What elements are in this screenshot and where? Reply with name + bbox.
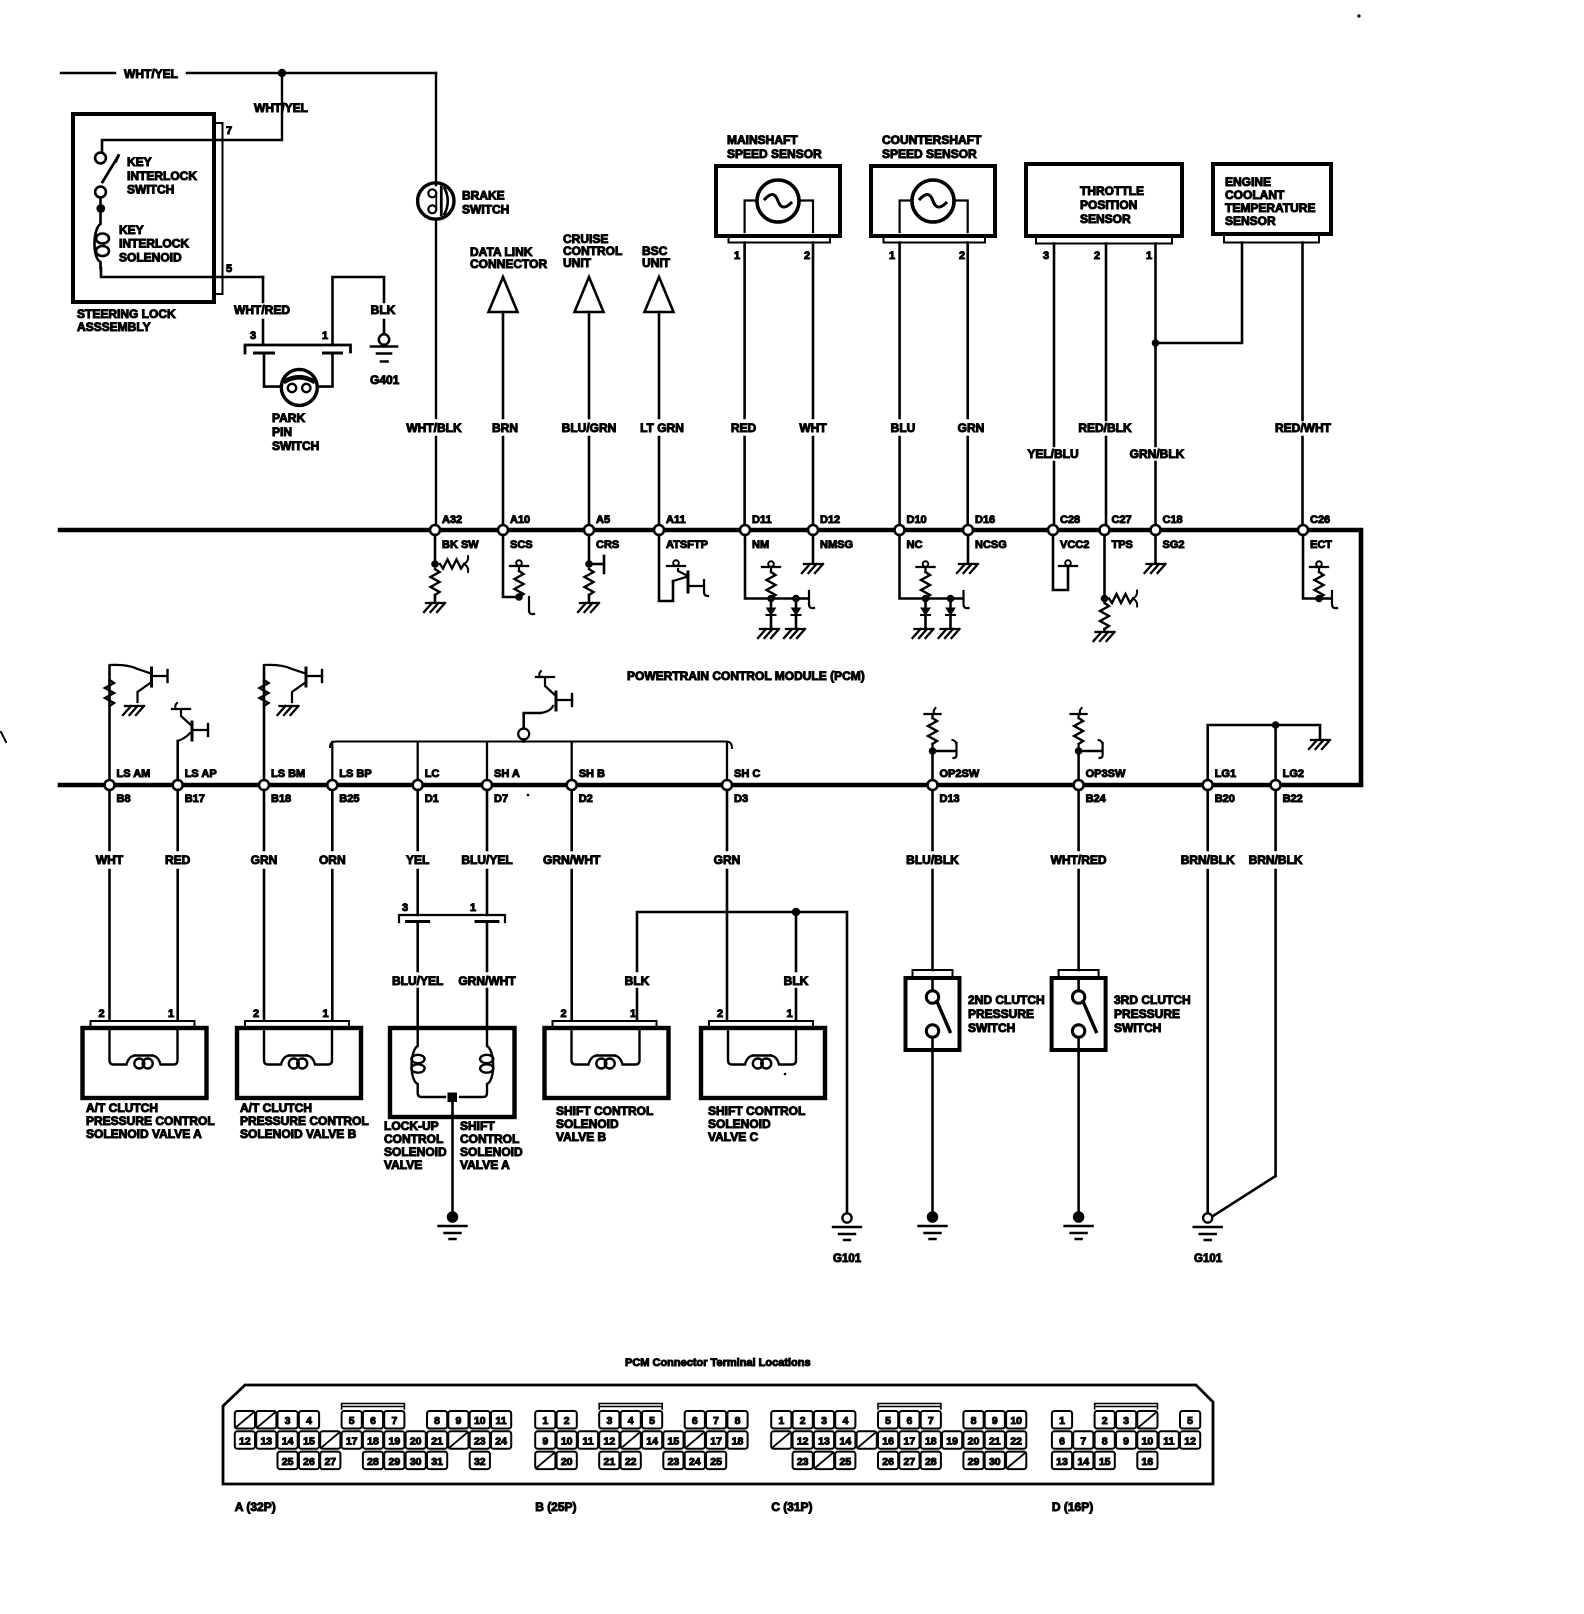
PCM connector housing [223, 1385, 1213, 1484]
svg-text:PRESSURE: PRESSURE [1114, 1007, 1180, 1021]
wire BLU/YEL to lock-up valve [416, 922, 419, 1029]
wire WHT/RED park pin switch [262, 277, 265, 343]
svg-text:SENSOR: SENSOR [1225, 214, 1276, 228]
pin B8 LS AM [105, 780, 115, 790]
PCM internal CRS circuit [588, 535, 591, 562]
svg-text:ECT: ECT [1310, 539, 1332, 551]
svg-text:VALVE A: VALVE A [460, 1158, 510, 1172]
wire key interlock internal top [102, 140, 222, 151]
svg-text:RED/WHT: RED/WHT [1275, 421, 1332, 435]
svg-text:WHT: WHT [799, 421, 827, 435]
svg-text:WHT/RED: WHT/RED [234, 303, 290, 317]
svg-text:YEL: YEL [406, 853, 429, 867]
svg-text:WHT: WHT [96, 853, 124, 867]
svg-text:SG2: SG2 [1163, 539, 1185, 551]
svg-text:5: 5 [349, 1415, 355, 1427]
svg-text:B20: B20 [1215, 793, 1235, 805]
svg-text:2: 2 [1102, 1415, 1108, 1427]
svg-text:1: 1 [734, 250, 740, 262]
svg-text:CONNECTOR: CONNECTOR [470, 257, 547, 271]
wire BRN/BLK from PCM [1274, 790, 1277, 1176]
svg-text:25: 25 [840, 1456, 852, 1468]
svg-text:12: 12 [604, 1436, 616, 1448]
svg-text:1: 1 [322, 330, 328, 342]
wire BRN [502, 312, 505, 525]
svg-text:14: 14 [1077, 1456, 1089, 1468]
svg-text:7: 7 [1080, 1436, 1086, 1448]
svg-text:8: 8 [735, 1415, 741, 1427]
pin D11 NM [740, 525, 750, 535]
svg-text:4: 4 [628, 1415, 634, 1427]
svg-text:1: 1 [778, 1415, 784, 1427]
svg-text:23: 23 [474, 1436, 486, 1448]
svg-text:3: 3 [1043, 250, 1049, 262]
wire RED from PCM [176, 790, 179, 1020]
svg-text:2: 2 [1094, 250, 1100, 262]
svg-text:10: 10 [474, 1415, 486, 1427]
svg-text:WHT/BLK: WHT/BLK [406, 421, 462, 435]
svg-text:8: 8 [1102, 1436, 1108, 1448]
svg-text:WHT/RED: WHT/RED [1051, 853, 1107, 867]
pin C28 VCC2 [1048, 525, 1058, 535]
svg-text:2ND CLUTCH: 2ND CLUTCH [968, 993, 1045, 1007]
PCM internal SCS circuit [503, 535, 516, 597]
svg-text:29: 29 [389, 1456, 401, 1468]
svg-text:11: 11 [582, 1436, 593, 1448]
svg-text:20: 20 [410, 1436, 422, 1448]
ground G401 [379, 334, 389, 344]
svg-text:16: 16 [882, 1436, 894, 1448]
svg-text:C28: C28 [1060, 514, 1080, 526]
svg-text:16: 16 [1142, 1456, 1154, 1468]
svg-text:SOLENOID VALVE B: SOLENOID VALVE B [240, 1127, 357, 1141]
svg-text:SPEED SENSOR: SPEED SENSOR [727, 147, 822, 161]
svg-text:5: 5 [885, 1415, 891, 1427]
svg-text:3: 3 [1123, 1415, 1129, 1427]
svg-text:GRN/WHT: GRN/WHT [543, 853, 601, 867]
wire GRN from PCM [263, 790, 266, 1020]
pin A32 BK SW [430, 525, 440, 535]
svg-text:2: 2 [253, 1008, 259, 1020]
ground (lock-up valve) [448, 1212, 457, 1221]
svg-text:POSITION: POSITION [1080, 198, 1137, 212]
connector A (32P) grid [235, 1411, 255, 1429]
node junction WHT/YEL [278, 69, 286, 77]
svg-text:ORN: ORN [319, 853, 346, 867]
throttle position sensor [1026, 164, 1182, 236]
lock-up control solenoid valve / shift control solenoid valve A [390, 1028, 515, 1117]
svg-text:WHT/YEL: WHT/YEL [254, 101, 308, 115]
connector B (25P) grid [535, 1411, 555, 1429]
wire WHT/BLK brake switch to A32 [435, 220, 437, 526]
wire BLU [898, 243, 901, 526]
svg-text:18: 18 [925, 1436, 937, 1448]
node SG2 junction [1152, 339, 1160, 347]
svg-text:NCSG: NCSG [975, 539, 1007, 551]
svg-text:LC: LC [425, 768, 440, 780]
svg-text:NC: NC [907, 539, 923, 551]
svg-text:30: 30 [989, 1456, 1001, 1468]
svg-text:1: 1 [889, 250, 895, 262]
svg-text:OP3SW: OP3SW [1086, 768, 1126, 780]
PCM internal SG2 ground [1154, 535, 1157, 562]
PCM internal VCC2 circuit [1053, 535, 1068, 590]
wire GRN/WHT from PCM [570, 790, 573, 1020]
3rd clutch pressure switch [1052, 978, 1106, 1050]
wire pin 5 out [101, 268, 263, 277]
svg-text:21: 21 [431, 1436, 443, 1448]
pin A10 SCS [498, 525, 508, 535]
connector C (31P) grid [771, 1411, 791, 1429]
svg-text:1: 1 [1059, 1415, 1065, 1427]
svg-text:2: 2 [959, 250, 965, 262]
svg-text:PIN: PIN [272, 425, 292, 439]
svg-text:18: 18 [367, 1436, 379, 1448]
svg-text:7: 7 [226, 125, 232, 137]
svg-text:GRN/BLK: GRN/BLK [1130, 447, 1185, 461]
svg-text:LOCK-UP: LOCK-UP [384, 1119, 439, 1133]
brake switch [435, 73, 437, 185]
svg-text:KEY: KEY [127, 155, 152, 169]
svg-text:PRESSURE CONTROL: PRESSURE CONTROL [86, 1114, 215, 1128]
svg-text:7: 7 [391, 1415, 397, 1427]
PCM internal shift solenoid common bracket [330, 742, 732, 749]
svg-text:11: 11 [496, 1415, 507, 1427]
svg-text:A10: A10 [510, 514, 530, 526]
svg-text:SCS: SCS [510, 539, 533, 551]
shift control solenoid valve B [545, 1028, 669, 1098]
svg-text:SOLENOID: SOLENOID [119, 251, 182, 265]
svg-text:SOLENOID: SOLENOID [384, 1145, 447, 1159]
svg-text:OP2SW: OP2SW [940, 768, 980, 780]
wire RED/BLK TPS pin2 [1105, 244, 1108, 526]
svg-text:B24: B24 [1086, 793, 1107, 805]
svg-text:BLK: BLK [625, 974, 650, 988]
svg-text:10: 10 [561, 1436, 573, 1448]
svg-text:SHIFT CONTROL: SHIFT CONTROL [708, 1104, 805, 1118]
pin D7 SH A [482, 780, 492, 790]
engine coolant temperature sensor [1213, 164, 1331, 234]
pin C18 SG2 [1151, 525, 1161, 535]
svg-text:11: 11 [1163, 1436, 1174, 1448]
pin B20 LG1 [1203, 780, 1213, 790]
pin D10 NC [895, 525, 905, 535]
svg-text:2: 2 [717, 1008, 723, 1020]
PCM top bus [60, 530, 1361, 784]
svg-text:1: 1 [542, 1415, 548, 1427]
svg-text:9: 9 [992, 1415, 998, 1427]
svg-text:2: 2 [800, 1415, 806, 1427]
svg-text:D10: D10 [907, 514, 927, 526]
pin D1 LC [413, 780, 423, 790]
svg-text:LS BM: LS BM [271, 768, 305, 780]
connector park pin switch [245, 345, 351, 353]
svg-text:26: 26 [303, 1456, 315, 1468]
svg-text:3: 3 [285, 1415, 291, 1427]
svg-text:12: 12 [797, 1436, 809, 1448]
svg-text:C26: C26 [1310, 514, 1330, 526]
svg-text:25: 25 [282, 1456, 294, 1468]
svg-text:13: 13 [1056, 1456, 1068, 1468]
pin C26 ECT [1298, 525, 1308, 535]
svg-text:23: 23 [797, 1456, 809, 1468]
svg-text:21: 21 [604, 1456, 616, 1468]
svg-text:3: 3 [250, 330, 256, 342]
svg-text:24: 24 [689, 1456, 701, 1468]
pin A11 ATSFTP [654, 525, 664, 535]
svg-text:25: 25 [710, 1456, 722, 1468]
wire lock-up valve common to ground [451, 1097, 454, 1212]
svg-text:BLU: BLU [891, 421, 916, 435]
wire BLU/GRN [588, 312, 591, 525]
svg-text:RED: RED [731, 421, 757, 435]
pin D2 SH B [567, 780, 577, 790]
svg-text:3: 3 [821, 1415, 827, 1427]
2nd clutch pressure switch [906, 978, 960, 1050]
PCM internal ECT circuit [1303, 535, 1319, 599]
svg-text:22: 22 [625, 1456, 637, 1468]
svg-text:1: 1 [323, 1008, 329, 1020]
svg-text:PCM Connector Terminal Locatio: PCM Connector Terminal Locations [625, 1357, 811, 1369]
wire BRN/BLK from PCM [1206, 790, 1209, 1213]
svg-text:WHT/YEL: WHT/YEL [124, 67, 178, 81]
svg-text:D2: D2 [579, 793, 593, 805]
svg-text:1: 1 [630, 1008, 636, 1020]
svg-text:NMSG: NMSG [820, 539, 853, 551]
svg-text:KEY: KEY [119, 223, 144, 237]
svg-text:B8: B8 [117, 793, 131, 805]
svg-text:7: 7 [713, 1415, 719, 1427]
svg-text:28: 28 [367, 1456, 379, 1468]
PCM internal NM circuit [745, 535, 771, 599]
svg-text:LS BP: LS BP [339, 768, 371, 780]
PCM internal OP2SW circuit [931, 752, 934, 780]
svg-text:14: 14 [646, 1436, 658, 1448]
svg-text:29: 29 [968, 1456, 980, 1468]
svg-text:SOLENOID VALVE A: SOLENOID VALVE A [86, 1127, 202, 1141]
svg-text:UNIT: UNIT [563, 256, 592, 270]
wire GRN [966, 243, 969, 526]
svg-text:C (31P): C (31P) [771, 1500, 812, 1514]
wire 2nd clutch switch to ground [931, 1050, 934, 1212]
svg-text:20: 20 [968, 1436, 980, 1448]
pin A5 CRS [584, 525, 594, 535]
svg-text:NM: NM [752, 539, 769, 551]
svg-text:9: 9 [542, 1436, 548, 1448]
svg-text:VCC2: VCC2 [1060, 539, 1089, 551]
svg-text:D13: D13 [940, 793, 960, 805]
pin B17 LS AP [173, 780, 183, 790]
wire BRN/BLK B22 diagonal to ground [1213, 1176, 1276, 1216]
svg-text:19: 19 [389, 1436, 401, 1448]
svg-text:RED/BLK: RED/BLK [1078, 421, 1132, 435]
svg-text:CONTROL: CONTROL [384, 1132, 443, 1146]
PCM internal LS AM driver [108, 667, 111, 780]
PCM bottom bus [60, 783, 1361, 788]
svg-text:BRN/BLK: BRN/BLK [1181, 853, 1235, 867]
svg-text:A/T CLUTCH: A/T CLUTCH [86, 1101, 158, 1115]
svg-text:6: 6 [692, 1415, 698, 1427]
svg-text:3: 3 [402, 902, 408, 914]
svg-text:3: 3 [606, 1415, 612, 1427]
svg-text:GRN: GRN [714, 853, 741, 867]
svg-text:BLK: BLK [784, 974, 809, 988]
svg-text:SHIFT: SHIFT [460, 1119, 495, 1133]
svg-text:7: 7 [928, 1415, 934, 1427]
pin B25 LS BP [327, 780, 337, 790]
svg-text:SWITCH: SWITCH [272, 439, 319, 453]
svg-text:D16: D16 [975, 514, 995, 526]
wire LT GRN [658, 312, 661, 525]
wire GRN/WHT to shift valve A [486, 922, 489, 1029]
svg-text:21: 21 [989, 1436, 1001, 1448]
svg-text:19: 19 [946, 1436, 958, 1448]
wire WHT from PCM [108, 790, 111, 1020]
svg-text:LG1: LG1 [1215, 768, 1236, 780]
park pin switch [264, 353, 333, 387]
svg-text:G401: G401 [370, 373, 400, 387]
svg-text:BRN/BLK: BRN/BLK [1249, 853, 1303, 867]
PCM internal TPS circuit [1103, 535, 1106, 596]
svg-text:BLU/GRN: BLU/GRN [562, 421, 617, 435]
svg-text:1: 1 [470, 902, 476, 914]
svg-text:SOLENOID: SOLENOID [460, 1145, 523, 1159]
svg-text:PARK: PARK [272, 411, 305, 425]
PCM internal LS AP driver [176, 741, 179, 780]
wire RED [743, 243, 746, 526]
svg-text:CONTROL: CONTROL [460, 1132, 519, 1146]
svg-text:A/T CLUTCH: A/T CLUTCH [240, 1101, 312, 1115]
svg-text:D (16P): D (16P) [1052, 1500, 1093, 1514]
A/T clutch pressure control solenoid valve A [83, 1028, 207, 1098]
svg-text:1: 1 [787, 1008, 793, 1020]
svg-text:2: 2 [99, 1008, 105, 1020]
A/T clutch pressure control solenoid valve B [237, 1028, 361, 1098]
svg-text:GRN: GRN [251, 853, 278, 867]
key interlock switch [95, 153, 106, 164]
svg-text:SH C: SH C [734, 768, 760, 780]
wire 3rd clutch switch to ground [1077, 1050, 1080, 1212]
svg-text:6: 6 [370, 1415, 376, 1427]
wire GRN/BLK TPS pin1 / SG2 [1154, 244, 1157, 526]
svg-text:28: 28 [925, 1456, 937, 1468]
svg-text:6: 6 [906, 1415, 912, 1427]
svg-text:VALVE B: VALVE B [556, 1130, 607, 1144]
svg-text:B (25P): B (25P) [535, 1500, 576, 1514]
svg-text:1: 1 [1146, 250, 1152, 262]
svg-text:SWITCH: SWITCH [1114, 1021, 1161, 1035]
svg-text:SENSOR: SENSOR [1080, 212, 1131, 226]
svg-text:PRESSURE: PRESSURE [968, 1007, 1034, 1021]
svg-text:LG2: LG2 [1283, 768, 1304, 780]
svg-text:VALVE: VALVE [384, 1158, 422, 1172]
svg-text:27: 27 [904, 1456, 916, 1468]
svg-text:SWITCH: SWITCH [462, 203, 509, 217]
pin B22 LG2 [1271, 780, 1281, 790]
svg-text:D3: D3 [734, 793, 748, 805]
wire WHT/YEL drop to pin 7 [222, 73, 282, 140]
svg-text:17: 17 [710, 1436, 722, 1448]
svg-text:B18: B18 [271, 793, 291, 805]
svg-text:20: 20 [561, 1456, 573, 1468]
svg-text:A11: A11 [666, 514, 686, 526]
wire BLU/YEL from PCM [486, 790, 489, 915]
pin D13 OP2SW [928, 780, 938, 790]
svg-text:14: 14 [840, 1436, 852, 1448]
svg-text:C18: C18 [1163, 514, 1183, 526]
svg-text:RED: RED [165, 853, 191, 867]
svg-text:5: 5 [649, 1415, 655, 1427]
wire GRN from PCM [726, 790, 729, 1020]
svg-text:17: 17 [346, 1436, 358, 1448]
svg-text:2: 2 [804, 250, 810, 262]
svg-text:14: 14 [282, 1436, 294, 1448]
PCM internal BK SW circuit [434, 535, 437, 562]
wire WHT [812, 243, 815, 526]
svg-text:4: 4 [306, 1415, 312, 1427]
svg-text:18: 18 [732, 1436, 744, 1448]
svg-text:8: 8 [434, 1415, 440, 1427]
key interlock solenoid coil [94, 213, 100, 268]
svg-text:SOLENOID: SOLENOID [708, 1117, 771, 1131]
PCM internal OP3SW circuit [1077, 752, 1080, 780]
svg-text:THROTTLE: THROTTLE [1080, 184, 1144, 198]
svg-text:17: 17 [904, 1436, 916, 1448]
svg-text:TPS: TPS [1112, 539, 1133, 551]
wire BLK to G401 [333, 277, 385, 345]
svg-text:3RD CLUTCH: 3RD CLUTCH [1114, 993, 1191, 1007]
wire YEL/BLU TPS pin3 [1053, 244, 1056, 526]
svg-text:BLK: BLK [371, 303, 396, 317]
svg-text:SWITCH: SWITCH [968, 1021, 1015, 1035]
PCM internal driver transistor above bracket [518, 729, 529, 740]
svg-text:INTERLOCK: INTERLOCK [119, 237, 189, 251]
pin B24 OP3SW [1074, 780, 1084, 790]
svg-text:LS AP: LS AP [185, 768, 217, 780]
scan artifact marks [1357, 14, 1360, 17]
svg-text:6: 6 [1059, 1436, 1065, 1448]
svg-text:1: 1 [168, 1008, 174, 1020]
steering lock assembly box [73, 114, 214, 302]
svg-text:PRESSURE CONTROL: PRESSURE CONTROL [240, 1114, 369, 1128]
svg-text:31: 31 [431, 1456, 443, 1468]
svg-text:22: 22 [1010, 1436, 1022, 1448]
svg-text:G101: G101 [833, 1253, 862, 1265]
svg-text:GRN: GRN [958, 421, 985, 435]
svg-text:26: 26 [882, 1456, 894, 1468]
svg-text:23: 23 [668, 1456, 680, 1468]
svg-text:12: 12 [239, 1436, 251, 1448]
svg-text:G101: G101 [1194, 1253, 1223, 1265]
wire WHT/YEL top feed [61, 72, 436, 74]
svg-text:30: 30 [410, 1456, 422, 1468]
node BLK junction [792, 908, 800, 916]
shift control solenoid valve C [701, 1028, 825, 1098]
svg-text:VALVE C: VALVE C [708, 1130, 759, 1144]
pin D12 NMSG [808, 525, 818, 535]
svg-text:BLU/BLK: BLU/BLK [906, 853, 959, 867]
svg-text:LT GRN: LT GRN [640, 421, 684, 435]
svg-text:24: 24 [495, 1436, 507, 1448]
wire YEL from PCM [416, 790, 419, 915]
ground (2nd clutch switch) [928, 1212, 937, 1221]
svg-text:5: 5 [1187, 1415, 1193, 1427]
svg-text:32: 32 [474, 1456, 486, 1468]
svg-text:15: 15 [303, 1436, 315, 1448]
svg-text:COUNTERSHAFT: COUNTERSHAFT [882, 133, 982, 147]
pin D3 SH C [722, 780, 732, 790]
svg-text:A32: A32 [442, 514, 462, 526]
